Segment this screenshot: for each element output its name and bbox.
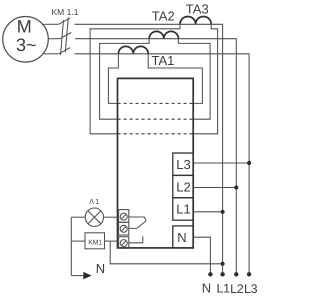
wire phase C motor to contactor <box>43 53 59 55</box>
junction dot L3 tap <box>247 161 251 165</box>
meter internal dashed link 3 <box>118 133 194 135</box>
TA1 secondary left wire to riser and meter <box>108 54 118 104</box>
svg-text:N: N <box>177 230 186 245</box>
svg-text:3~: 3~ <box>16 35 37 55</box>
wire phase C TA1 to corner and down to L3 dot <box>148 54 249 274</box>
bottom terminal dot L1 <box>220 272 224 276</box>
terminal box N <box>173 226 193 248</box>
relay contact fixed bottom <box>129 236 143 243</box>
junction dot L2 tap <box>234 185 238 189</box>
wire vertical lamp-KM1-N arrow <box>70 217 72 275</box>
terminal box L2 <box>173 175 193 197</box>
wire phase B motor to contactor <box>48 38 60 40</box>
bottom terminal dot L2 <box>234 272 238 276</box>
relay contact blade <box>129 221 146 228</box>
wire phase C contactor to TA1 <box>75 53 119 55</box>
screw terminal block 1 <box>119 210 129 223</box>
svg-text:KM 1.1: KM 1.1 <box>52 7 79 17</box>
motor M1 circle <box>3 17 49 63</box>
svg-text:KM1: KM1 <box>88 240 102 247</box>
svg-text:TA1: TA1 <box>152 53 175 68</box>
contactor blade pole 3 <box>59 48 70 54</box>
screw terminal block 2 <box>119 222 129 235</box>
svg-text:L1: L1 <box>217 282 231 296</box>
wire lamp to screw 1 <box>104 216 119 218</box>
TA2 secondary left wire to riser and meter <box>100 39 150 120</box>
wire phase A contactor to TA3 <box>75 23 181 25</box>
wire phase B TA2 to corner and down to L2 dot <box>178 39 236 275</box>
wire under TA3 coil <box>180 23 211 25</box>
TA3 secondary right wire down and into meter <box>193 24 217 134</box>
wire KM1 left <box>71 240 85 242</box>
wire KM1 branch to L1 junction <box>110 241 222 264</box>
svg-text:TA3: TA3 <box>186 2 209 17</box>
lamp HL1 <box>85 208 103 226</box>
wire phase B contactor to TA2 <box>75 38 149 40</box>
wire lamp left to junction <box>71 216 85 218</box>
contactor blade pole 1 <box>59 18 71 24</box>
relay coil KM1 box <box>85 233 105 249</box>
svg-text:L3: L3 <box>244 282 258 296</box>
wire KM1 right to screw 3 <box>105 240 119 242</box>
junction dot L1 tap <box>221 210 225 214</box>
svg-text:L1: L1 <box>176 202 190 217</box>
wire under TA1 coil <box>118 53 148 55</box>
svg-text:TA2: TA2 <box>152 8 175 23</box>
terminal box L3 <box>173 153 193 175</box>
meter internal dashed link 1 <box>118 102 194 104</box>
svg-text:Λ1: Λ1 <box>89 197 100 206</box>
screw terminal block 3 <box>119 237 129 249</box>
relay contact fixed top <box>129 217 146 221</box>
bottom terminal dot L3 <box>247 272 251 276</box>
svg-text:L3: L3 <box>176 157 190 172</box>
TA2 secondary right wire down and into meter <box>178 39 210 120</box>
current transformer TA3 coil <box>180 16 211 24</box>
meter device box <box>118 78 194 248</box>
svg-text:N: N <box>202 281 211 296</box>
TA1 secondary right wire down and into meter <box>148 54 202 104</box>
wire N terminal down to N bottom dot <box>193 237 210 274</box>
wire phase A TA3 to corner and down to L1 dot <box>211 24 222 274</box>
svg-text:M: M <box>17 16 32 36</box>
contactor linkage bar left <box>61 20 64 55</box>
meter internal dashed link 2 <box>118 118 194 120</box>
contactor linkage bar right <box>65 18 68 53</box>
bottom terminal dot N <box>208 272 212 276</box>
current transformer TA1 coil <box>118 46 148 53</box>
wire L1 terminal to phase A vertical <box>193 211 222 213</box>
wire under TA2 coil <box>149 38 178 40</box>
TA3 secondary left wire to riser and meter <box>90 24 180 134</box>
N reference arrow <box>71 275 83 277</box>
wire L2 terminal to phase B vertical <box>193 187 236 189</box>
svg-text:L2: L2 <box>176 179 190 194</box>
wire phase A motor to contactor <box>43 23 59 25</box>
svg-text:N: N <box>96 261 105 276</box>
svg-text:L2: L2 <box>230 282 244 296</box>
junction dot on L1 vertical <box>221 262 225 266</box>
terminal box L1 <box>173 198 193 220</box>
current transformer TA2 coil <box>149 31 178 38</box>
wire L3 terminal to phase C vertical <box>193 162 249 164</box>
contactor blade pole 2 <box>60 33 71 39</box>
